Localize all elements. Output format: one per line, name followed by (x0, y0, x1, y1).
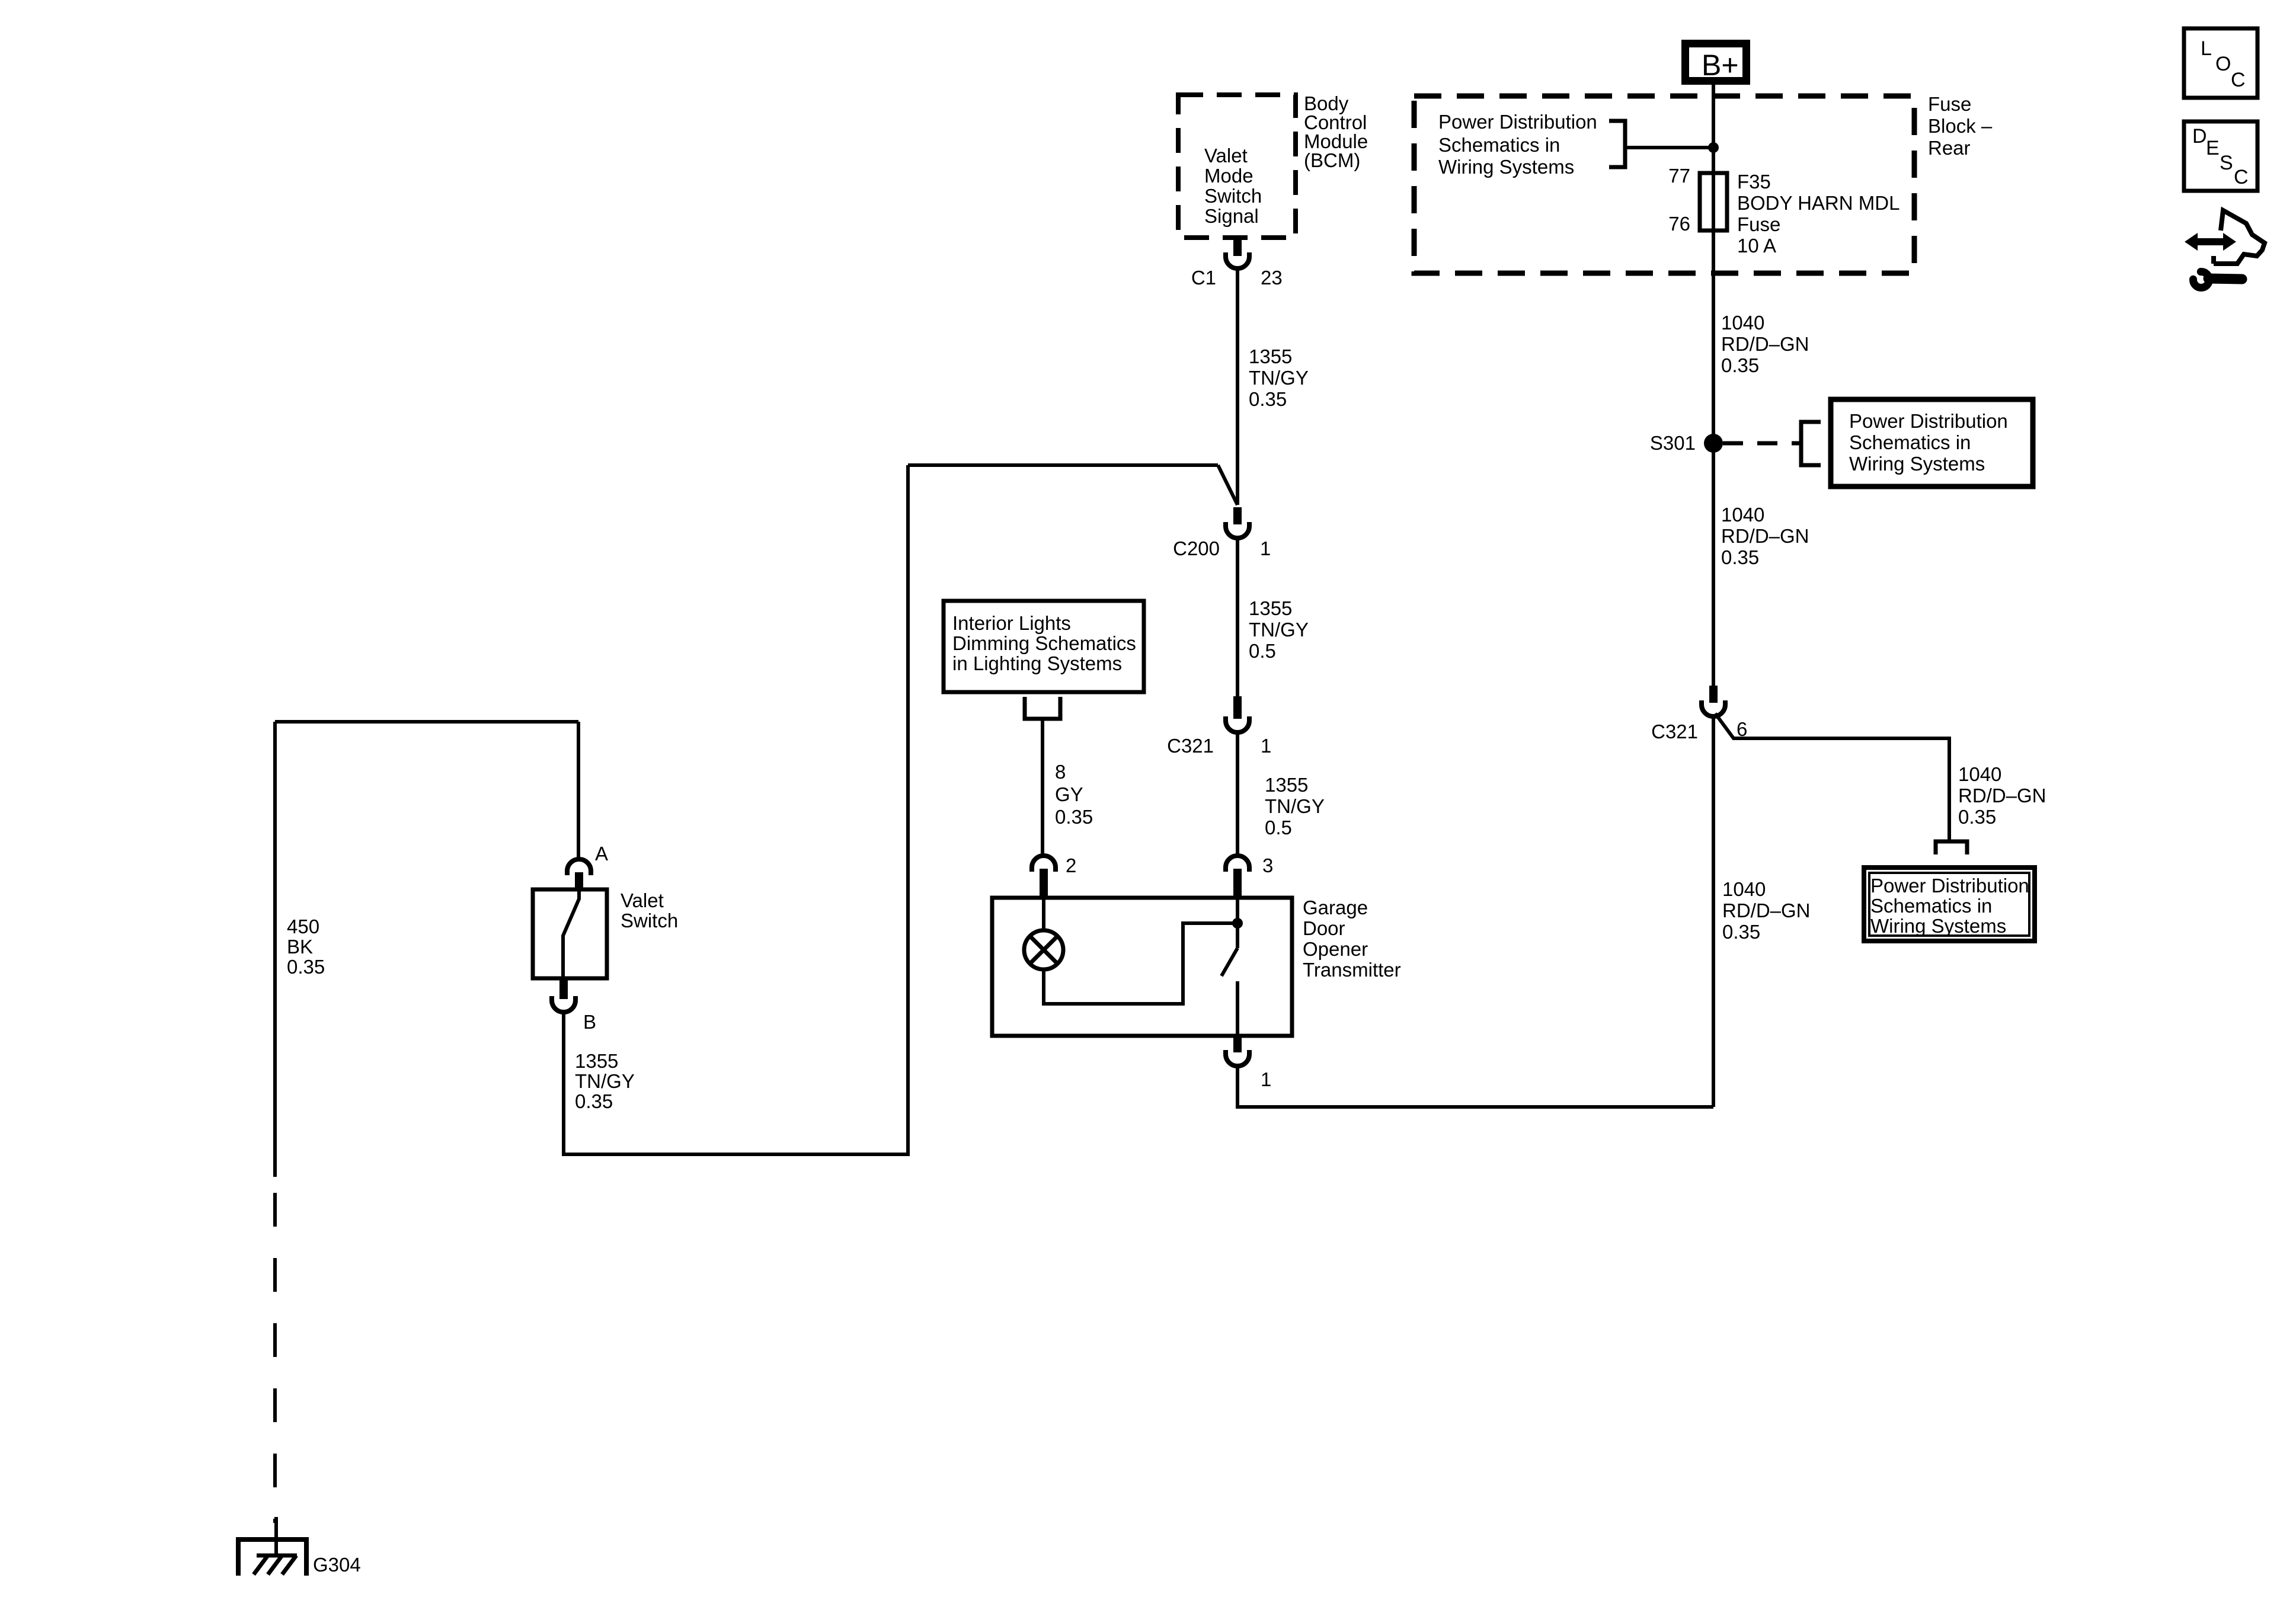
svg-text:Power Distribution: Power Distribution (1849, 410, 2008, 432)
svg-text:Signal: Signal (1204, 205, 1259, 227)
lamp leads (1042, 898, 1045, 930)
svg-text:F35: F35 (1737, 171, 1771, 193)
connector pin 3 of transmitter (1226, 856, 1249, 898)
svg-text:RD/D–GN: RD/D–GN (1958, 785, 2046, 806)
wire to transmitter pin 2 (1041, 719, 1044, 856)
wire valet loop left leg (450 BK) (273, 722, 277, 1177)
svg-text:0.5: 0.5 (1249, 640, 1276, 662)
svg-text:1: 1 (1261, 1068, 1271, 1090)
fuse F35 value label (1737, 171, 1900, 257)
svg-text:Power Distribution: Power Distribution (1438, 111, 1597, 133)
svg-text:0.5: 0.5 (1265, 817, 1292, 838)
svg-text:3: 3 (1262, 854, 1273, 876)
svg-text:B: B (583, 1011, 596, 1033)
svg-text:Door: Door (1303, 917, 1345, 939)
svg-text:A: A (595, 843, 608, 865)
svg-text:2: 2 (1066, 854, 1076, 876)
connector pin A (567, 859, 591, 889)
svg-text:Dimming Schematics: Dimming Schematics (952, 632, 1136, 654)
half connector from interior lights box (1025, 697, 1060, 719)
splice S301 (1704, 434, 1723, 453)
wire label 1355 TN/GY 0.35 (valet B) (575, 1050, 635, 1112)
connector pin 2 of transmitter (1032, 856, 1056, 898)
wire label 1355 TN/GY 0.35 (1249, 345, 1309, 410)
svg-text:Rear: Rear (1928, 137, 1971, 159)
svg-text:0.35: 0.35 (1958, 806, 1996, 828)
svg-text:RD/D–GN: RD/D–GN (1721, 333, 1809, 355)
wire C321-1 down to transmitter pin 3 (1236, 732, 1239, 856)
svg-text:10 A: 10 A (1737, 235, 1776, 257)
connector pin B (552, 978, 596, 1033)
svg-text:BK: BK (287, 936, 313, 958)
garage door opener transmitter box (992, 898, 1292, 1036)
wire label 8 GY 0.35 (1055, 761, 1093, 828)
svg-text:8: 8 (1055, 761, 1066, 783)
svg-text:77: 77 (1668, 165, 1690, 187)
svg-text:Wiring Systems: Wiring Systems (1870, 915, 2006, 937)
svg-text:TN/GY: TN/GY (1265, 795, 1325, 817)
svg-text:0.35: 0.35 (287, 956, 325, 978)
svg-text:C1: C1 (1191, 267, 1216, 289)
svg-text:1355: 1355 (1249, 345, 1292, 367)
fuse block rear dashed box (1414, 96, 1914, 273)
bracket to power distribution text (1609, 121, 1625, 167)
power distribution reference box (S301) (1831, 399, 2033, 486)
svg-text:TN/GY: TN/GY (1249, 619, 1309, 641)
svg-text:23: 23 (1261, 267, 1283, 289)
svg-text:TN/GY: TN/GY (1249, 367, 1309, 389)
connector pin 1 of transmitter (1226, 1036, 1271, 1090)
svg-text:RD/D–GN: RD/D–GN (1721, 525, 1809, 547)
wire C200 to C321 pin 1 (1236, 538, 1239, 696)
svg-text:TN/GY: TN/GY (575, 1070, 635, 1092)
transmitter switch (1236, 898, 1239, 948)
svg-text:Garage: Garage (1303, 897, 1368, 918)
svg-text:0.35: 0.35 (1722, 921, 1760, 943)
svg-text:Fuse: Fuse (1737, 213, 1780, 235)
svg-text:C321: C321 (1167, 735, 1214, 757)
dashed wire 450 BK to ground (273, 1193, 277, 1523)
svg-text:C200: C200 (1173, 537, 1220, 559)
wire branch to valet switch loop (908, 463, 1218, 467)
indicator lamp (1024, 930, 1063, 969)
wire valet loop top (275, 720, 578, 724)
valet switch blade (563, 889, 579, 978)
connector C321 pin 1 (1167, 696, 1271, 757)
svg-text:C321: C321 (1651, 721, 1698, 742)
fuse F35 (1700, 173, 1727, 231)
svg-text:0.35: 0.35 (1721, 354, 1759, 376)
svg-text:Block –: Block – (1928, 115, 1993, 137)
wire bracket to B+ node (1625, 146, 1713, 149)
svg-text:Transmitter: Transmitter (1303, 959, 1401, 981)
svg-text:C: C (2231, 69, 2246, 91)
svg-text:O: O (2215, 53, 2231, 75)
svg-text:1: 1 (1260, 537, 1271, 559)
junction dot inside transmitter (1232, 918, 1243, 929)
svg-text:1355: 1355 (1265, 774, 1308, 796)
svg-text:Schematics in: Schematics in (1438, 134, 1560, 156)
svg-text:76: 76 (1668, 213, 1690, 235)
wire label 450 BK 0.35 (287, 916, 325, 978)
svg-text:0.35: 0.35 (1249, 388, 1287, 410)
half connector to reference box (1936, 841, 1967, 854)
svg-text:Switch: Switch (621, 910, 678, 932)
svg-text:0.35: 0.35 (1055, 806, 1093, 828)
svg-text:1040: 1040 (1721, 312, 1764, 334)
ground G304 (238, 1539, 361, 1576)
svg-text:Wiring Systems: Wiring Systems (1438, 156, 1574, 178)
wire lead-in diagonal to C200 (1218, 465, 1237, 505)
svg-text:0.35: 0.35 (575, 1090, 613, 1112)
junction dot B+ node (1708, 142, 1719, 153)
wire label 1040 RD/D-GN 0.35 (branch) (1958, 763, 2046, 828)
wire valet B to BCM branch (564, 465, 908, 1154)
svg-text:GY: GY (1055, 783, 1083, 805)
dashed reference link from S301 (1723, 441, 1801, 446)
svg-text:1040: 1040 (1958, 763, 2001, 785)
svg-text:Opener: Opener (1303, 938, 1368, 960)
wire label 1040 RD/D-GN 0.35 (fuse to S301) (1721, 312, 1809, 376)
wire C321-6 branch to power distribution reference (1715, 713, 1949, 841)
svg-text:Valet: Valet (1204, 145, 1248, 167)
interior lights dimming reference box (944, 601, 1144, 692)
svg-text:E: E (2206, 137, 2220, 159)
connector C1 pin 23 (1191, 238, 1283, 289)
fuse block label (1928, 93, 1993, 159)
svg-text:C: C (2234, 166, 2249, 188)
svg-text:Wiring Systems: Wiring Systems (1849, 453, 1985, 475)
power distribution reference text (in fuse block) (1438, 111, 1597, 178)
svg-text:B+: B+ (1702, 49, 1739, 82)
svg-text:1355: 1355 (1249, 597, 1292, 619)
wire label 1355 TN/GY 0.5 (1265, 774, 1325, 838)
B+ battery feed symbol (1681, 40, 1750, 85)
svg-text:S301: S301 (1650, 432, 1696, 454)
power distribution reference box (bottom right, double border) (1864, 868, 2035, 941)
svg-text:Interior Lights: Interior Lights (952, 612, 1071, 634)
diagnostic icon outline (2214, 210, 2265, 264)
wire C1-23 down to C200 (1236, 268, 1239, 505)
svg-text:Switch: Switch (1204, 185, 1262, 207)
svg-text:Fuse: Fuse (1928, 93, 1971, 115)
svg-text:BODY HARN MDL: BODY HARN MDL (1737, 192, 1900, 214)
BCM label (1304, 92, 1368, 171)
wire pin 1 to C321-6 leg (1237, 1066, 1713, 1107)
diagnostic icon wrench (2193, 271, 2242, 287)
wire C321-6 down to garage door opener return (1712, 716, 1715, 1107)
wire label 1040 RD/D-GN 0.35 (C321-6 down leg) (1722, 878, 1811, 943)
svg-text:450: 450 (287, 916, 319, 937)
wire label 1040 RD/D-GN 0.35 (S301 to C321) (1721, 504, 1809, 568)
body control module dashed box (valet mode switch signal) (1178, 95, 1296, 238)
wire to valet switch pin A (577, 722, 580, 859)
svg-text:Schematics in: Schematics in (1870, 895, 1992, 917)
valet switch box (533, 889, 607, 978)
svg-text:1040: 1040 (1722, 878, 1766, 900)
svg-text:1040: 1040 (1721, 504, 1764, 526)
bracket to power distribution box (1801, 422, 1821, 465)
wire B+ to fuse F35 to S301 to C321 pin 6 (1712, 85, 1715, 686)
svg-text:L: L (2201, 37, 2212, 60)
connector C321 pin 6 (1651, 686, 1747, 742)
connector C200 pin 1 (1173, 507, 1271, 559)
svg-text:Power Distribution: Power Distribution (1870, 875, 2029, 897)
svg-text:G304: G304 (313, 1554, 361, 1576)
svg-text:1355: 1355 (575, 1050, 618, 1072)
wire label 1355 TN/GY 0.5 (1249, 597, 1309, 662)
svg-text:Schematics in: Schematics in (1849, 431, 1971, 453)
DESC legend box (2184, 121, 2257, 191)
svg-text:S: S (2220, 152, 2233, 174)
svg-text:D: D (2192, 125, 2207, 148)
svg-text:1: 1 (1261, 735, 1271, 757)
svg-text:(BCM): (BCM) (1304, 149, 1360, 171)
diagnostic icon double arrow (2185, 233, 2236, 251)
svg-text:0.35: 0.35 (1721, 546, 1759, 568)
LOC legend box (2184, 28, 2257, 98)
svg-text:RD/D–GN: RD/D–GN (1722, 900, 1811, 921)
svg-text:in Lighting Systems: in Lighting Systems (952, 652, 1122, 674)
svg-text:Valet: Valet (621, 889, 664, 911)
svg-text:Mode: Mode (1204, 165, 1253, 187)
